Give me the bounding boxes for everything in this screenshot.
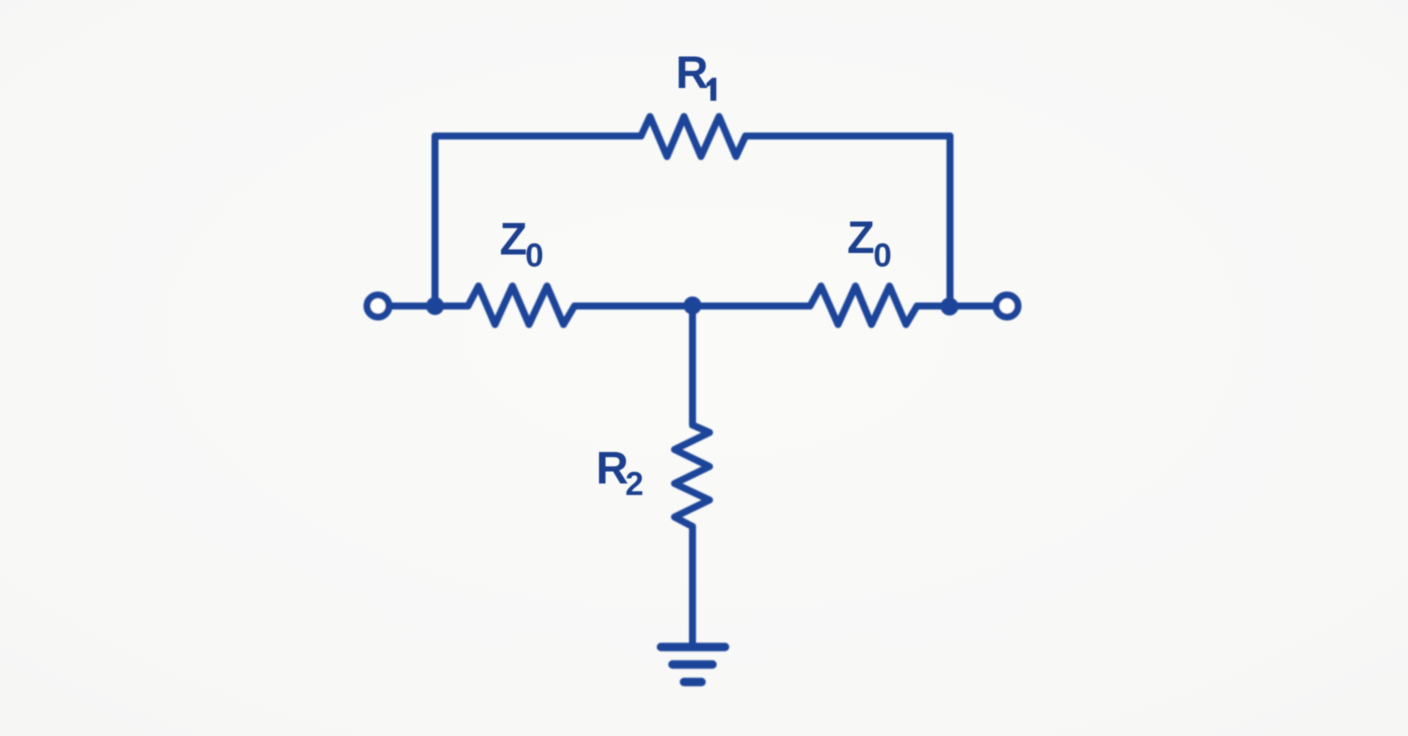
resistor Z0 right bbox=[810, 286, 917, 325]
wire: top right horizontal bbox=[746, 133, 951, 140]
svg-text:Z: Z bbox=[500, 213, 527, 264]
wire: center node to Z0 right bbox=[693, 303, 811, 310]
wire: top left horizontal bbox=[435, 133, 641, 140]
node: left junction bbox=[426, 297, 444, 315]
wire: Z0 right to right terminal bbox=[917, 303, 993, 310]
wire: top loop right vertical bbox=[947, 136, 954, 306]
svg-text:0: 0 bbox=[525, 237, 543, 274]
svg-text:0: 0 bbox=[873, 237, 891, 274]
resistor R1 bbox=[641, 117, 746, 157]
svg-text:R: R bbox=[676, 47, 709, 98]
svg-text:2: 2 bbox=[625, 465, 643, 502]
wire: center node down to R2 bbox=[689, 306, 696, 425]
terminal right bbox=[996, 295, 1018, 317]
wire: left terminal to Z0 left bbox=[392, 303, 468, 310]
wire: top loop left vertical bbox=[432, 136, 439, 306]
wire: R2 to ground bbox=[689, 527, 696, 648]
ground bbox=[661, 647, 725, 682]
resistor Z0 left bbox=[468, 286, 575, 325]
node: right junction bbox=[941, 298, 959, 316]
wire: Z0 left to center node bbox=[575, 303, 693, 310]
svg-text:Z: Z bbox=[847, 212, 875, 263]
svg-text:R: R bbox=[596, 442, 629, 493]
terminal left bbox=[367, 295, 389, 317]
resistor R2 bbox=[675, 425, 710, 527]
node: center junction bbox=[684, 297, 702, 315]
